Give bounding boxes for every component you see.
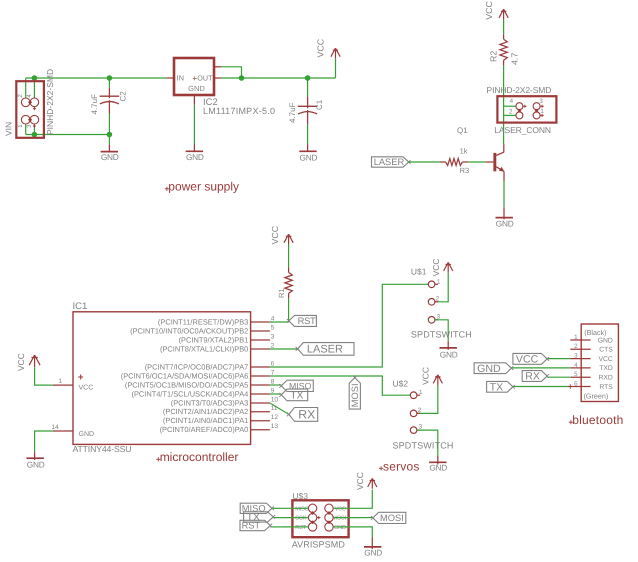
voltage regulator IC2 box xyxy=(174,58,214,95)
pin 4 stub of IC1 (PB3) xyxy=(251,321,270,323)
svg-text:(PCINT8/XTAL1/CLKI)PB0: (PCINT8/XTAL1/CLKI)PB0 xyxy=(160,344,248,353)
pad MISO of U$3 xyxy=(308,504,316,512)
section label bluetooth xyxy=(569,420,573,424)
wire VCC to U$2 pin 2 xyxy=(417,385,438,413)
svg-text:GND: GND xyxy=(429,463,447,473)
svg-text:2: 2 xyxy=(509,109,513,116)
flag MOSI avrisp xyxy=(373,512,406,523)
svg-text:2: 2 xyxy=(574,343,578,350)
wire pin 4 to RST flag xyxy=(270,321,289,323)
svg-text:Q1: Q1 xyxy=(457,126,468,135)
svg-text:GND: GND xyxy=(188,84,205,93)
svg-text:servos: servos xyxy=(383,459,420,473)
svg-text:1: 1 xyxy=(59,378,63,385)
svg-text:GND: GND xyxy=(496,219,514,229)
wire bluetooth GND xyxy=(511,367,570,369)
svg-text:GND: GND xyxy=(27,459,45,469)
svg-text:bluetooth: bluetooth xyxy=(572,413,623,427)
svg-text:ATTINY44-SSU: ATTINY44-SSU xyxy=(73,444,132,454)
wire R2 to Q1 collector xyxy=(503,65,505,144)
svg-text:1: 1 xyxy=(437,278,441,285)
svg-text:SPDTSWITCH: SPDTSWITCH xyxy=(411,330,472,340)
svg-text:RST: RST xyxy=(295,525,306,531)
svg-text:VCC: VCC xyxy=(355,472,365,490)
svg-text:(Black): (Black) xyxy=(584,328,606,337)
pin 1 of U$2 xyxy=(410,392,417,399)
svg-text:3: 3 xyxy=(539,98,543,105)
pin 4 stub of bluetooth (TXD) xyxy=(570,367,590,369)
pin 14 stub of IC1 (GND) xyxy=(53,430,73,432)
svg-text:(PCINT10/INT0/OC0A/CKOUT)PB2: (PCINT10/INT0/OC0A/CKOUT)PB2 xyxy=(130,326,248,335)
VCC symbol at U$1 xyxy=(444,262,453,272)
svg-text:4: 4 xyxy=(510,98,514,105)
svg-text:GND: GND xyxy=(440,350,458,360)
svg-text:OUT: OUT xyxy=(197,74,213,83)
ground under IC1 xyxy=(27,457,44,459)
svg-text:PINHD-2X2-SMD: PINHD-2X2-SMD xyxy=(487,85,552,95)
pin IN stub of IC2 xyxy=(167,77,174,79)
flag MOSI vertical xyxy=(349,378,360,410)
svg-text:C2: C2 xyxy=(118,91,127,102)
svg-text:VCC: VCC xyxy=(270,225,280,244)
pin 13 stub of IC1 (PA0) xyxy=(251,429,270,431)
pin GND stub of IC2 xyxy=(193,95,195,105)
svg-text:R3: R3 xyxy=(460,166,470,175)
flag TX xyxy=(281,389,307,401)
connector LASER_CONN box xyxy=(497,96,556,122)
wire MISO flag to U$3 xyxy=(272,507,281,509)
svg-text:LM1117IMPX-5.0: LM1117IMPX-5.0 xyxy=(203,106,275,116)
svg-text:GND: GND xyxy=(300,152,318,162)
svg-text:VCC: VCC xyxy=(316,38,326,57)
pin 10 stub of IC1 (PA3) xyxy=(251,402,270,404)
VCC symbol at IC1 xyxy=(29,355,40,367)
flag RX bluetooth xyxy=(522,371,547,382)
pad 1 of VIN xyxy=(21,115,30,124)
pad MOSI of U$3 xyxy=(325,513,333,521)
svg-text:2: 2 xyxy=(17,94,24,98)
svg-text:VIN: VIN xyxy=(4,122,14,136)
pin 6 stub of IC1 (PA7) xyxy=(251,366,270,368)
svg-text:GND: GND xyxy=(477,363,501,375)
capacitor C1 xyxy=(307,78,309,97)
resistor R2 xyxy=(503,34,505,39)
wire pin 8 to MISO flag xyxy=(270,384,281,386)
svg-text:1k: 1k xyxy=(460,147,468,156)
connector U$3 AVRISPSMD box xyxy=(292,500,348,537)
wire VCC to R1 xyxy=(288,245,290,268)
svg-text:6: 6 xyxy=(574,380,578,387)
wire left pads of U$3 xyxy=(281,507,308,509)
ground under U$3 xyxy=(364,546,381,548)
wire U$3 GND down xyxy=(359,527,372,537)
connector VIN PINHD-2X2-SMD xyxy=(16,81,44,138)
svg-text:VCC: VCC xyxy=(484,0,494,19)
pin 2 of U$2 xyxy=(410,410,417,417)
pin 1 of U$1 xyxy=(428,281,435,288)
svg-text:RST: RST xyxy=(298,315,316,326)
svg-text:(PCINT4/T1/SCL/USCK/ADC4)PA4: (PCINT4/T1/SCL/USCK/ADC4)PA4 xyxy=(131,389,248,398)
section label servos xyxy=(379,466,383,470)
junction diamond right col of LASER_CONN xyxy=(535,109,539,113)
wire U$2 pin 3 to ground xyxy=(417,430,438,456)
svg-text:VCC: VCC xyxy=(431,258,441,276)
svg-text:6: 6 xyxy=(271,360,275,367)
svg-text:14: 14 xyxy=(52,424,60,431)
svg-text:4.7: 4.7 xyxy=(510,53,520,65)
pin 9 stub of IC1 (PA4) xyxy=(251,393,270,395)
pad 3 of LASER_CONN xyxy=(533,103,540,110)
svg-text:SCK: SCK xyxy=(295,516,306,522)
wire IC2 OUT to VCC rail xyxy=(221,77,335,79)
svg-text:GND: GND xyxy=(364,547,382,557)
VCC symbol at U$3 xyxy=(368,478,377,488)
pad SCK of U$3 xyxy=(308,513,316,521)
flag RST xyxy=(289,315,317,326)
wire right pads of U$3 xyxy=(333,507,359,509)
svg-text:GND: GND xyxy=(186,152,204,162)
svg-text:RST: RST xyxy=(242,521,261,531)
svg-text:RTS: RTS xyxy=(599,384,613,391)
wire R3 to Q1 base xyxy=(468,161,485,163)
wire RST flag to U$3 xyxy=(270,526,281,528)
svg-text:4: 4 xyxy=(271,315,275,322)
svg-text:2: 2 xyxy=(418,407,422,414)
svg-text:U$2: U$2 xyxy=(393,378,409,388)
resistor R3 xyxy=(440,161,446,163)
svg-text:microcontroller: microcontroller xyxy=(160,450,239,464)
svg-text:CTS: CTS xyxy=(599,347,613,354)
wire bluetooth VCC xyxy=(547,358,570,360)
flag VCC bluetooth xyxy=(513,353,547,364)
wire VIN bottom rail to C2 xyxy=(26,134,110,136)
ground under Q1 xyxy=(496,217,513,219)
wire pin 9 to TX flag xyxy=(270,393,281,395)
wire bluetooth RTS to TX flag xyxy=(513,386,570,388)
transistor Q1 xyxy=(493,153,496,171)
IC1 box ATTINY44 xyxy=(73,312,251,445)
pin 3 of U$1 xyxy=(428,317,435,324)
pad VCC of U$3 xyxy=(325,504,333,512)
svg-text:MOSI: MOSI xyxy=(380,513,404,523)
svg-text:C1: C1 xyxy=(315,99,324,110)
pin 3 stub of bluetooth (VCC) xyxy=(570,358,590,360)
pad 2 of VIN xyxy=(21,98,30,107)
pad 1 of LASER_CONN xyxy=(533,112,540,119)
wire pin 10 to RX flag (diagonal) xyxy=(270,403,289,414)
wire U$3 MOSI to flag xyxy=(359,517,373,519)
svg-text:(PCINT0/AREF/ADC0)PA0: (PCINT0/AREF/ADC0)PA0 xyxy=(160,425,249,434)
VCC symbol at U$2 xyxy=(433,375,442,385)
svg-text:5: 5 xyxy=(574,371,578,378)
wire jog to pad 4 of LASER_CONN xyxy=(504,105,516,107)
svg-text:4: 4 xyxy=(574,362,578,369)
svg-text:3: 3 xyxy=(271,333,275,340)
flag MISO xyxy=(281,380,313,391)
pin OUT stub of IC2 xyxy=(214,77,221,79)
wire VCC power rail up xyxy=(335,58,337,78)
flag LASER input xyxy=(372,157,409,167)
flag LASER xyxy=(298,343,354,356)
wire VIN pin4 up xyxy=(33,78,35,98)
svg-text:VCC: VCC xyxy=(335,506,346,512)
wire IC2 GND down xyxy=(193,105,195,145)
wire VIN pin2 up xyxy=(25,78,27,98)
svg-text:LASER_CONN: LASER_CONN xyxy=(494,125,551,135)
svg-text:5: 5 xyxy=(271,324,275,331)
svg-text:VCC: VCC xyxy=(79,384,94,391)
wire bluetooth RXD to RX flag xyxy=(547,376,570,378)
svg-text:(PCINT5/OC1B/MISO/DO/ADC5)PA5: (PCINT5/OC1B/MISO/DO/ADC5)PA5 xyxy=(125,380,248,389)
pin 11 stub of IC1 (PA2) xyxy=(251,411,270,413)
svg-text:1: 1 xyxy=(574,334,578,341)
wire VIN pins to IC2 IN (top rail) xyxy=(26,77,167,79)
svg-text:(PCINT1/AIN0/ADC1)PA1: (PCINT1/AIN0/ADC1)PA1 xyxy=(163,416,248,425)
wire R1 to RST net xyxy=(288,298,290,322)
connector bluetooth box xyxy=(581,324,618,402)
svg-text:RXD: RXD xyxy=(598,375,612,382)
svg-text:(PCINT11/RESET/DW)PB3: (PCINT11/RESET/DW)PB3 xyxy=(158,317,248,326)
svg-text:4.7uF: 4.7uF xyxy=(90,94,99,115)
svg-text:PINHD-2X2-SMD: PINHD-2X2-SMD xyxy=(45,69,55,135)
flag MISO avrisp xyxy=(240,503,272,513)
ground under C1 xyxy=(299,150,316,152)
wire IC2 OUT2 jog xyxy=(221,67,241,78)
wire VIN pin3 down xyxy=(33,124,35,135)
svg-text:GND: GND xyxy=(334,525,346,531)
ground under C2 xyxy=(101,151,118,153)
svg-text:13: 13 xyxy=(271,423,279,430)
svg-text:R1: R1 xyxy=(277,288,286,298)
svg-text:GND: GND xyxy=(598,337,613,344)
pin 2 of U$1 xyxy=(428,299,435,306)
svg-text:(PCINT7/ICP/OC0B/ADC7)PA7: (PCINT7/ICP/OC0B/ADC7)PA7 xyxy=(145,362,249,371)
svg-text:(PCINT3/T0/ADC3)PA3: (PCINT3/T0/ADC3)PA3 xyxy=(171,398,249,407)
wire IC1 GND down xyxy=(35,431,53,452)
svg-text:SPDTSWITCH: SPDTSWITCH xyxy=(393,440,454,450)
svg-text:2: 2 xyxy=(436,296,440,303)
wire LASER flag to R3 xyxy=(409,161,440,163)
svg-text:IN: IN xyxy=(177,74,185,83)
section label microcontroller xyxy=(156,457,160,461)
resistor R1 xyxy=(288,267,290,272)
junction top at C2 xyxy=(107,75,113,81)
svg-text:(PCINT9/XTAL2)PB1: (PCINT9/XTAL2)PB1 xyxy=(179,335,249,344)
wire pin 7 to switch U$2 xyxy=(270,376,410,395)
svg-text:VCC: VCC xyxy=(421,367,431,385)
pin OUT2 stub of IC2 xyxy=(214,66,221,68)
svg-text:8: 8 xyxy=(271,378,275,385)
pin 5 stub of IC1 (PB2) xyxy=(251,330,270,332)
svg-text:1: 1 xyxy=(17,124,24,128)
svg-text:4: 4 xyxy=(26,94,33,98)
pad 4 of LASER_CONN xyxy=(516,103,523,110)
junction diamond bottom row of VIN xyxy=(28,118,32,122)
svg-text:10: 10 xyxy=(271,396,279,403)
pad GND of U$3 xyxy=(325,523,333,531)
svg-text:RX: RX xyxy=(298,408,315,422)
pad 3 of VIN xyxy=(30,115,39,124)
pad 4 of VIN xyxy=(30,98,39,107)
wire TX flag to U$3 xyxy=(273,517,281,519)
wire C2 to ground xyxy=(108,135,110,145)
section label power supply xyxy=(165,187,169,191)
svg-text:1: 1 xyxy=(419,389,423,396)
svg-text:(PCINT6/OC1A/SDA/MOSI/ADC6)PA6: (PCINT6/OC1A/SDA/MOSI/ADC6)PA6 xyxy=(121,371,249,380)
svg-text:R2: R2 xyxy=(489,51,499,62)
pin 5 stub of bluetooth (RXD) xyxy=(570,376,590,378)
junction diamond left col of LASER_CONN xyxy=(518,109,522,113)
svg-text:VCC: VCC xyxy=(598,356,612,363)
wire U$3 VCC up xyxy=(359,490,372,509)
svg-text:2: 2 xyxy=(271,342,275,349)
svg-text:AVRISPSMD: AVRISPSMD xyxy=(292,540,346,550)
svg-text:3: 3 xyxy=(574,353,578,360)
ground under U$1 xyxy=(440,347,457,349)
svg-text:MISO: MISO xyxy=(295,506,309,512)
wire U$1 pin 3 to ground xyxy=(435,320,448,341)
flag GND bluetooth xyxy=(474,363,511,374)
ground under IC2 xyxy=(186,150,203,152)
svg-text:7: 7 xyxy=(271,369,275,376)
junction OUT xyxy=(239,75,245,81)
pin 2 stub of IC1 (PB0) xyxy=(251,348,270,350)
pin 6 stub of bluetooth (RTS) xyxy=(570,386,590,388)
pin name VCC of IC1 xyxy=(78,375,83,380)
svg-text:VCC: VCC xyxy=(16,353,26,371)
wire Q1 emitter down xyxy=(503,171,505,181)
junction diamond top row of VIN xyxy=(28,100,32,104)
svg-text:GND: GND xyxy=(79,431,95,438)
svg-text:TXD: TXD xyxy=(599,365,613,372)
wire VCC to U$1 pin 2 xyxy=(435,273,448,302)
svg-text:9: 9 xyxy=(271,387,275,394)
svg-text:U$1: U$1 xyxy=(411,266,427,276)
svg-text:(PCINT2/AIN1/ADC2)PA2: (PCINT2/AIN1/ADC2)PA2 xyxy=(163,407,248,416)
pad RST of U$3 xyxy=(308,523,316,531)
pin 1 stub of IC1 (VCC) xyxy=(53,384,73,386)
svg-text:VCC: VCC xyxy=(516,353,539,365)
pin 2 stub of bluetooth (CTS) xyxy=(570,348,590,350)
wire IC1 VCC to VCC symbol xyxy=(35,367,53,385)
pad 2 of LASER_CONN xyxy=(516,112,523,119)
wire jog to pad 2 of LASER_CONN xyxy=(504,114,516,116)
wire VCC to R2 xyxy=(503,20,505,35)
svg-text:MOSI: MOSI xyxy=(332,516,346,522)
capacitor C2 xyxy=(108,78,110,88)
pin 8 stub of IC1 (PA5) xyxy=(251,384,270,386)
junction bottom at C2 xyxy=(107,132,113,138)
junction at C1 xyxy=(305,75,311,81)
wire pin 6 to switch U$1 xyxy=(270,284,428,367)
pin 1 stub of bluetooth (GND) xyxy=(570,339,590,341)
svg-text:MOSI: MOSI xyxy=(350,383,360,407)
svg-text:1: 1 xyxy=(540,108,544,115)
flag TX avrisp xyxy=(244,512,274,522)
ground under U$2 xyxy=(429,461,446,463)
pin 3 stub of IC1 (PB1) xyxy=(251,339,270,341)
pin 3 of U$2 xyxy=(410,427,417,434)
flag TX bluetooth xyxy=(487,381,513,392)
svg-text:4.7uF: 4.7uF xyxy=(288,102,297,123)
junction diamonds of U$3 xyxy=(311,511,315,515)
svg-text:power supply: power supply xyxy=(168,180,239,194)
flag RX xyxy=(289,408,318,422)
svg-text:LASER: LASER xyxy=(374,157,405,167)
svg-text:12: 12 xyxy=(271,414,279,421)
svg-text:IC1: IC1 xyxy=(73,301,88,312)
pin 7 stub of IC1 (PA6) xyxy=(251,375,270,377)
VCC symbol at R1 xyxy=(284,234,293,244)
pin 12 stub of IC1 (PA1) xyxy=(251,420,270,422)
svg-text:RX: RX xyxy=(525,371,540,383)
VCC symbol power xyxy=(331,48,340,58)
svg-text:3: 3 xyxy=(26,124,33,128)
VCC symbol at R2 xyxy=(499,9,508,19)
svg-text:(Green): (Green) xyxy=(584,392,609,401)
flag RST avrisp xyxy=(240,520,270,530)
svg-text:TX: TX xyxy=(490,381,504,393)
svg-text:GND: GND xyxy=(101,152,119,162)
junction bottom at pin3 xyxy=(32,132,38,138)
svg-text:TX: TX xyxy=(290,390,303,401)
svg-text:LASER: LASER xyxy=(307,344,343,356)
junction top at pin4 xyxy=(32,75,38,81)
wire pin 2 to LASER flag xyxy=(270,348,298,350)
wire VIN pin1 down xyxy=(25,124,27,135)
